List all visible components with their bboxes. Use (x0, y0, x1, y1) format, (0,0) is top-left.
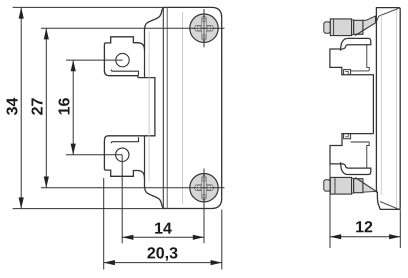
dimension 16 line with arrows (71, 60, 76, 155)
svg-text:12: 12 (355, 219, 373, 236)
svg-text:20,3: 20,3 (147, 245, 178, 262)
screw centerline / 27-dim extension top (41, 27, 225, 29)
screw S2 head (190, 174, 218, 202)
34-dim extension top (13, 6, 165, 8)
front view long vertical x=170.2 (166, 7, 168, 208)
34-dim extension bottom (13, 208, 165, 210)
front view internal light vertical x=149 (148, 32, 150, 182)
front view internal edge x=144.5 bottom band (144, 136, 146, 179)
svg-text:16: 16 (57, 98, 74, 116)
svg-text:14: 14 (154, 221, 172, 238)
front view plate outline (104, 7, 221, 208)
screw S2 vertical centerline and 14-dim right extension (203, 169, 205, 244)
front view light vertical x=182.5 (182, 12, 184, 204)
dimension 27 line with arrows (44, 28, 49, 188)
side view top block (330, 38, 374, 133)
dimension 12 line with arrows (330, 234, 400, 239)
svg-text:34: 34 (5, 98, 22, 116)
svg-text:27: 27 (30, 98, 47, 116)
screw S1 head (190, 9, 218, 47)
front view long vertical x=163.3 (162, 7, 164, 208)
16-dim extension bottom (hole centerline) (66, 154, 122, 156)
side view bottom bolt (324, 177, 376, 194)
side view bottom block (330, 134, 373, 175)
side view plate (376, 8, 400, 210)
16-dim extension top (hole centerline) (66, 59, 123, 61)
top tab inner ledge (111, 70, 138, 76)
dimension 34 line with arrows (19, 7, 24, 208)
bottom tab inner ledge (111, 137, 138, 143)
side view top bolt (324, 16, 376, 36)
12-dim extensions (329, 164, 331, 248)
screw centerline / 27-dim extension bottom (41, 187, 225, 189)
front view internal edge x=144.5 top band (144, 47, 146, 78)
20,3-dim right extension (221, 210, 223, 270)
dimension 14 line with arrows (122, 235, 204, 240)
dimension 20,3 line with arrows (104, 260, 222, 265)
bottom tab hole (116, 148, 129, 161)
top tab hole (116, 53, 129, 66)
20,3-dim left extension (103, 178, 105, 270)
14-dim left extension from hole center (121, 155, 123, 244)
